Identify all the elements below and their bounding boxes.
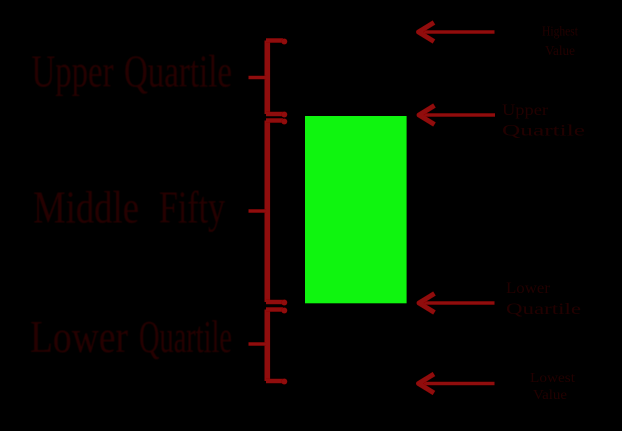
svg-text:Quartile: Quartile [139,311,232,362]
brace upper quartile [249,39,288,118]
label lower quartile value [506,280,581,318]
svg-text:Lower: Lower [30,311,128,362]
arrow lower quartile boundary [419,294,495,313]
label lowest value [530,371,575,403]
svg-text:Upper: Upper [502,102,549,119]
arrow maximum [419,23,495,42]
label highest value [542,25,578,60]
label upper quartile [32,46,233,97]
svg-text:Upper: Upper [32,46,114,97]
label upper quartile value [502,102,585,140]
brace middle fifty [249,119,288,306]
svg-text:Quartile: Quartile [506,301,581,318]
svg-text:Value: Value [533,388,567,403]
brace lower quartile [249,308,288,385]
green box (inter-quartile range) [305,116,407,303]
arrow minimum [419,374,495,393]
label lower quartile [30,311,232,362]
arrow upper quartile boundary [419,106,495,125]
svg-text:Lowest: Lowest [530,371,575,386]
svg-text:Quartile: Quartile [124,46,232,97]
svg-text:Lower: Lower [506,280,551,297]
svg-text:Middle: Middle [33,182,139,233]
svg-text:Fifty: Fifty [159,182,225,233]
label middle fifty [33,182,225,233]
svg-text:Value: Value [545,44,575,59]
svg-text:Highest: Highest [542,25,578,40]
svg-text:Quartile: Quartile [502,123,585,140]
